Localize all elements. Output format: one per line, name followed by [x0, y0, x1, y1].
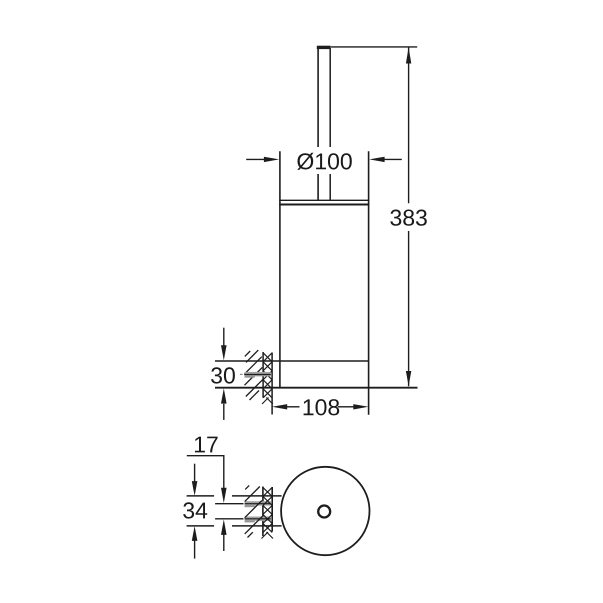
label dia 100 — [297, 153, 352, 170]
dimension 17 bottom shaft — [223, 535, 225, 552]
dimension 108 left arrowhead (points left) — [272, 404, 287, 409]
dimension 17 leader (horizontal + corner down) — [187, 456, 224, 488]
screw 2 head — [245, 521, 255, 523]
screw (side view) shaft plate — [245, 372, 271, 377]
bracket bottom line left segment — [187, 525, 215, 527]
rim bottom line — [279, 203, 369, 205]
base top line — [215, 360, 369, 362]
arrowhead 383 up — [406, 47, 411, 63]
dimension 108 right arrowhead (points right) — [353, 404, 368, 409]
dimension 30 bottom shaft — [223, 404, 225, 420]
screw 1 head — [245, 505, 255, 507]
label 34 — [183, 502, 207, 518]
screw 2 centerline — [245, 518, 271, 520]
wall chevron ticks between wall lines (bottom view) — [262, 487, 274, 538]
wall hatch strokes (bottom view) — [245, 485, 263, 537]
label 17 — [195, 437, 218, 453]
rim top line — [279, 199, 369, 201]
label 108 — [304, 399, 340, 415]
label 383 — [390, 210, 426, 226]
screw 2 centerline extension — [215, 518, 243, 520]
screw 1 centerline — [245, 503, 271, 505]
dimension 108 right shaft — [338, 406, 354, 408]
dimension 30 top shaft — [223, 328, 225, 346]
brush rod right edge — [329, 48, 331, 200]
wall line 1 (bottom view) — [262, 487, 264, 537]
holder body left edge + extension — [279, 151, 281, 388]
wall hatch strokes (side view) — [245, 350, 263, 400]
dimension line diameter 100 right tail — [384, 158, 402, 160]
screw 1 shaft plate — [245, 501, 271, 505]
screw 1 centerline extension — [215, 503, 243, 505]
bottom line of holder + extensions — [215, 387, 418, 389]
screw 2 shaft plate — [245, 517, 271, 521]
container circle (top view) — [281, 467, 369, 555]
arrowhead 17 down — [221, 488, 227, 503]
dimension line 383 upper segment — [408, 47, 410, 203]
bracket top line right segment — [232, 495, 282, 497]
bracket top line left segment — [187, 495, 215, 497]
arrowhead 34 down — [192, 481, 198, 496]
arrowhead 30 down — [221, 345, 227, 360]
wall chevron ticks between wall lines (side view) — [262, 353, 273, 404]
label 30 — [211, 367, 235, 383]
rod top cap — [317, 46, 331, 49]
wall line 2 (bottom view) — [271, 487, 273, 532]
arrowhead 17 up — [221, 519, 227, 535]
dimension 108 left shaft — [287, 406, 300, 408]
wall line 1 (side view) — [262, 352, 264, 398]
extension line top for 383 — [331, 46, 418, 48]
dimension line 383 lower segment — [408, 231, 410, 386]
dimension line diameter 100 left tail — [246, 158, 264, 160]
screw (side view) centerline dash — [240, 373, 243, 375]
brush rod left edge — [317, 48, 319, 200]
arrowhead 30 up — [221, 388, 227, 403]
screw (side view) head — [245, 376, 255, 378]
text mask dia100 — [292, 147, 355, 174]
holder body right edge + extension down to 108 dim — [368, 151, 370, 415]
dimension 34 top shaft — [194, 464, 196, 482]
bracket bottom line right segment — [232, 525, 282, 527]
arrowhead dia100 left (points right) — [264, 157, 279, 162]
dimension 34 bottom shaft — [194, 541, 196, 559]
screw (side view) centerline — [244, 374, 271, 376]
arrowhead 383 down — [406, 371, 411, 386]
center hole circle — [318, 506, 330, 518]
arrowhead 34 up — [192, 526, 198, 541]
wall line 2 (side view) — [271, 353, 273, 415]
arrowhead dia100 right (points left) — [369, 157, 384, 162]
